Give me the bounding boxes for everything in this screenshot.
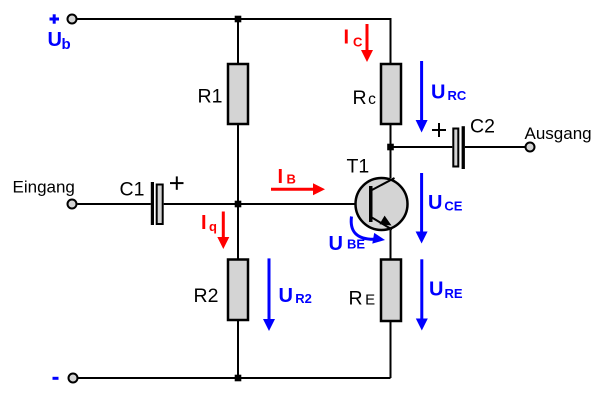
svg-text:R1: R1 [198,86,223,108]
svg-text:I: I [344,27,350,49]
svg-text:RE: RE [445,286,463,301]
svg-text:b: b [62,36,71,53]
svg-text:Rc: Rc [353,87,377,109]
svg-text:C2: C2 [470,116,495,138]
svg-text:BE: BE [347,237,365,252]
svg-text:U: U [428,192,442,214]
svg-text:RC: RC [448,88,467,103]
svg-text:T1: T1 [347,156,370,178]
svg-text:U: U [431,81,445,103]
svg-text:CE: CE [444,199,462,214]
svg-text:C: C [353,34,363,49]
svg-text:Eingang: Eingang [13,178,75,197]
svg-text:B: B [287,172,296,187]
svg-text:U: U [429,278,443,300]
svg-text:C1: C1 [120,179,145,201]
svg-text:U: U [48,29,62,51]
svg-text:Ausgang: Ausgang [525,124,592,143]
svg-text:I: I [278,166,284,188]
svg-text:U: U [329,233,343,255]
svg-text:q: q [209,219,217,234]
svg-text:R2: R2 [194,285,219,307]
svg-text:RE: RE [349,288,376,310]
svg-text:I: I [201,212,207,234]
svg-text:U: U [279,285,293,307]
svg-text:R2: R2 [295,291,312,306]
